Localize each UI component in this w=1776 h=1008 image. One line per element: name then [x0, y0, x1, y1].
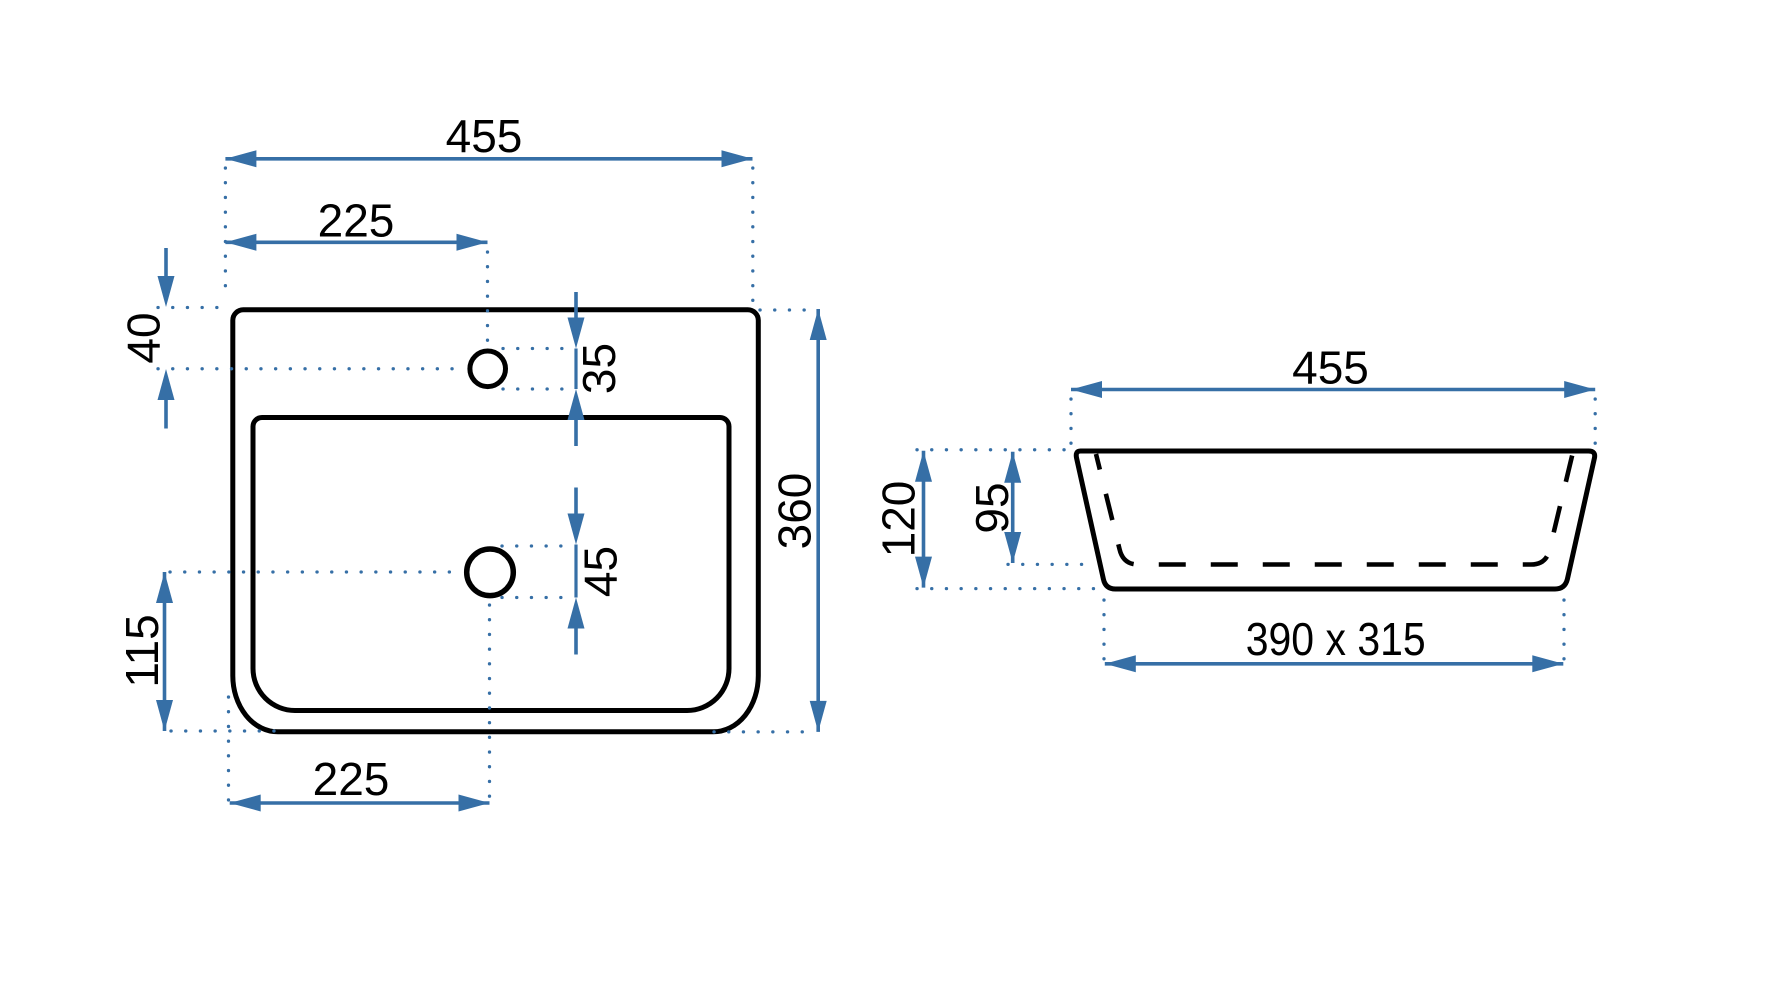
dimension 120 (overall height) — [872, 451, 932, 588]
dimension 360 (top view overall depth) — [768, 309, 826, 732]
washbasin outer outline (top view) — [233, 310, 759, 732]
extension line base right — [1562, 600, 1565, 660]
dimension 40 (rim to faucet hole) — [117, 248, 174, 429]
extension line faucet centerline upper — [486, 252, 489, 345]
extension row faucet hole bottom tangent — [503, 387, 570, 390]
dimension 45 (drain hole diameter) — [568, 488, 627, 655]
svg-text:225: 225 — [318, 195, 395, 247]
svg-text:120: 120 — [872, 481, 924, 558]
extension line right of side 455 dim — [1594, 399, 1597, 446]
basin inner outline (top view) — [253, 418, 729, 711]
extension row inner bottom level — [1008, 563, 1088, 566]
svg-text:95: 95 — [966, 482, 1018, 533]
extension line drain centerline lower — [488, 605, 491, 810]
drain hole — [467, 549, 514, 596]
extension row side bottom edge — [917, 587, 1101, 590]
extension row drain hole bottom tangent — [502, 596, 570, 599]
dimension 225 (drain offset, bottom) — [230, 753, 490, 812]
extension row faucet hole top tangent — [503, 347, 570, 350]
svg-text:115: 115 — [116, 614, 168, 687]
extension line base left — [1102, 600, 1105, 660]
extension row faucet hole centerline — [158, 367, 466, 370]
dimension 455 (side view overall width) — [1071, 342, 1595, 399]
svg-text:40: 40 — [117, 312, 169, 363]
dimension 35 (faucet hole diameter) — [568, 292, 625, 446]
svg-text:360: 360 — [768, 473, 820, 550]
dimension 390 x 315 (base size) — [1105, 613, 1564, 672]
washbasin profile outline (side view) — [1076, 451, 1594, 589]
dimension 455 (top view overall width) — [225, 110, 752, 167]
extension line left of side 455 dim — [1069, 399, 1072, 446]
extension row top right corner — [760, 308, 814, 311]
dimension 95 (inner depth) — [966, 452, 1021, 563]
dimension 115 (drain to front edge) — [116, 572, 173, 731]
extension row bottom right corner — [714, 730, 814, 733]
extension line bottom left edge — [227, 697, 230, 810]
extension row drain centerline — [170, 570, 464, 573]
dimension 225 (faucet hole offset, top) — [225, 195, 487, 251]
extension row drain hole top tangent — [502, 544, 570, 547]
svg-text:455: 455 — [446, 110, 523, 162]
svg-text:35: 35 — [573, 343, 625, 394]
svg-text:390 x 315: 390 x 315 — [1246, 613, 1426, 665]
svg-text:455: 455 — [1292, 342, 1369, 394]
svg-text:45: 45 — [574, 546, 626, 597]
extension row rim top left — [158, 306, 227, 309]
extension line left of 455 dim — [224, 168, 227, 300]
basin hidden inner contour (dashed, side view) — [1096, 454, 1573, 565]
extension line right of 455 dim — [751, 168, 754, 306]
extension row front edge left — [171, 729, 276, 732]
faucet hole — [470, 351, 506, 387]
extension row side top edge — [917, 448, 1068, 451]
svg-text:225: 225 — [313, 753, 390, 805]
